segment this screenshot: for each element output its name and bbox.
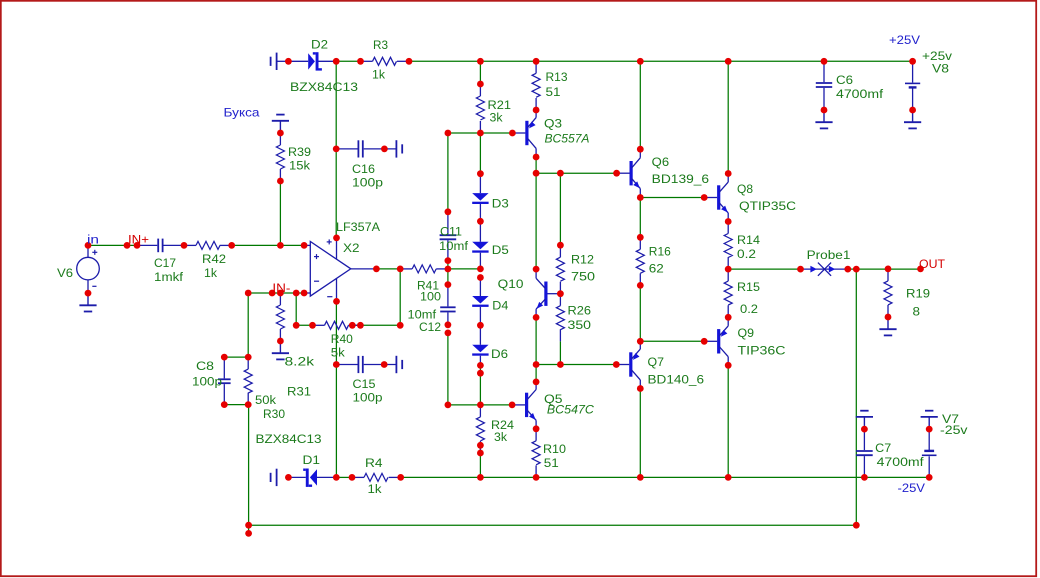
svg-text:R19: R19: [906, 287, 930, 301]
svg-text:10mf: 10mf: [439, 239, 469, 253]
svg-text:0.2: 0.2: [740, 302, 758, 316]
svg-text:OUT: OUT: [919, 257, 945, 271]
svg-text:R15: R15: [737, 280, 760, 294]
svg-text:V8: V8: [932, 62, 949, 76]
svg-text:C15: C15: [353, 377, 376, 391]
svg-text:BC557A: BC557A: [545, 132, 590, 146]
svg-text:BZX84C13: BZX84C13: [290, 80, 358, 94]
svg-text:8.2k: 8.2k: [285, 355, 316, 369]
svg-text:X2: X2: [343, 241, 360, 255]
svg-text:D5: D5: [492, 243, 509, 257]
svg-text:Q9: Q9: [738, 326, 755, 340]
svg-text:R26: R26: [568, 304, 592, 318]
svg-text:C11: C11: [440, 225, 462, 239]
svg-text:C12: C12: [419, 320, 441, 334]
svg-text:TIP36C: TIP36C: [738, 344, 786, 358]
svg-text:3k: 3k: [490, 111, 504, 125]
svg-text:Букса: Букса: [224, 106, 260, 120]
svg-text:3k: 3k: [494, 430, 508, 444]
svg-text:1mkf: 1mkf: [154, 270, 184, 284]
svg-text:15k: 15k: [289, 159, 311, 173]
svg-text:BD140_6: BD140_6: [648, 373, 705, 387]
svg-text:in: in: [87, 233, 99, 247]
svg-text:1k: 1k: [368, 482, 383, 496]
svg-text:V6: V6: [57, 266, 73, 280]
svg-text:100p: 100p: [353, 391, 383, 405]
svg-text:C7: C7: [875, 441, 891, 455]
svg-text:D4: D4: [492, 299, 508, 313]
svg-text:0.2: 0.2: [737, 247, 756, 261]
svg-text:BD139_6: BD139_6: [652, 172, 710, 186]
svg-text:C16: C16: [352, 162, 375, 176]
svg-text:100: 100: [420, 289, 441, 303]
svg-text:4700mf: 4700mf: [836, 87, 884, 101]
svg-text:R3: R3: [373, 38, 388, 52]
svg-text:51: 51: [544, 456, 559, 470]
svg-text:+25V: +25V: [889, 33, 921, 47]
svg-text:Q10: Q10: [498, 277, 524, 291]
svg-text:IN-: IN-: [272, 281, 290, 295]
svg-text:R10: R10: [543, 442, 566, 456]
svg-text:D6: D6: [491, 347, 508, 361]
svg-text:100p: 100p: [192, 375, 222, 389]
svg-text:LF357A: LF357A: [336, 220, 381, 234]
svg-text:100p: 100p: [352, 176, 383, 190]
svg-text:C17: C17: [154, 256, 176, 270]
svg-text:Q3: Q3: [544, 117, 562, 131]
svg-text:5k: 5k: [331, 346, 346, 360]
svg-text:IN+: IN+: [128, 233, 149, 247]
svg-text:Q6: Q6: [652, 155, 670, 169]
svg-text:D1: D1: [303, 453, 321, 467]
svg-text:R12: R12: [571, 253, 594, 267]
svg-text:BC547C: BC547C: [547, 402, 595, 416]
svg-text:R4: R4: [365, 456, 383, 470]
svg-text:-25V: -25V: [898, 481, 926, 495]
svg-text:-25v: -25v: [940, 423, 968, 437]
svg-text:750: 750: [571, 270, 595, 284]
svg-text:Probe1: Probe1: [807, 248, 851, 262]
svg-text:Q8: Q8: [737, 182, 753, 196]
svg-text:BZX84C13: BZX84C13: [256, 432, 322, 446]
svg-text:51: 51: [546, 85, 561, 99]
svg-text:1k: 1k: [204, 266, 218, 280]
svg-text:R40: R40: [331, 332, 353, 346]
svg-text:C6: C6: [836, 73, 853, 87]
svg-text:4700mf: 4700mf: [877, 455, 925, 469]
svg-text:R42: R42: [202, 252, 226, 266]
svg-text:62: 62: [649, 262, 664, 276]
svg-text:350: 350: [568, 318, 592, 332]
svg-text:C8: C8: [196, 359, 214, 373]
svg-text:50k: 50k: [255, 393, 277, 407]
svg-text:QTIP35C: QTIP35C: [739, 199, 796, 213]
svg-text:R39: R39: [288, 145, 311, 159]
svg-text:R14: R14: [737, 233, 760, 247]
svg-text:R13: R13: [546, 70, 568, 84]
svg-text:D3: D3: [492, 197, 509, 211]
svg-text:1k: 1k: [372, 68, 386, 82]
svg-text:8: 8: [913, 305, 921, 319]
svg-text:R30: R30: [263, 407, 285, 421]
svg-text:Q7: Q7: [648, 355, 665, 369]
svg-text:R31: R31: [287, 385, 311, 399]
svg-text:R16: R16: [649, 245, 671, 259]
svg-text:D2: D2: [311, 38, 328, 52]
